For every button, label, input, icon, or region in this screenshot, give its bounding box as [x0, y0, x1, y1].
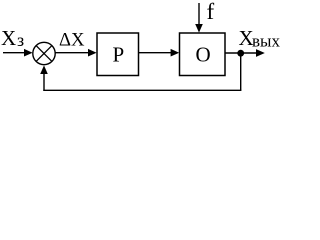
node f disturbance label: [207, 0, 215, 24]
wire feedback bottom run: [43, 89, 241, 91]
node Xz input label: [1, 26, 24, 50]
svg-text:вых: вых: [252, 32, 280, 51]
wire feedback rise arrow into summing junction: [40, 65, 48, 91]
svg-text:О: О: [196, 42, 211, 66]
svg-text:f: f: [207, 0, 215, 24]
block O controlled object: [180, 33, 226, 76]
block P regulator: [97, 33, 139, 76]
svg-text:Р: Р: [113, 42, 125, 66]
wire input arrow into summing junction: [3, 49, 33, 57]
svg-text:ΔX: ΔX: [59, 30, 85, 51]
wire disturbance f arrow into O: [195, 3, 203, 33]
node dX error label: [59, 30, 85, 51]
svg-text:з: з: [17, 30, 24, 50]
wire output arrow from O: [225, 49, 265, 57]
summing junction comparator: [33, 42, 55, 64]
wire feedback vertical drop: [240, 53, 242, 90]
wire arrow from summing junction to regulator P: [55, 49, 96, 57]
svg-text:X: X: [1, 26, 16, 50]
wire arrow from P to object O: [139, 49, 179, 57]
junction dot on output: [237, 50, 244, 57]
node Xout output label: [239, 26, 281, 51]
